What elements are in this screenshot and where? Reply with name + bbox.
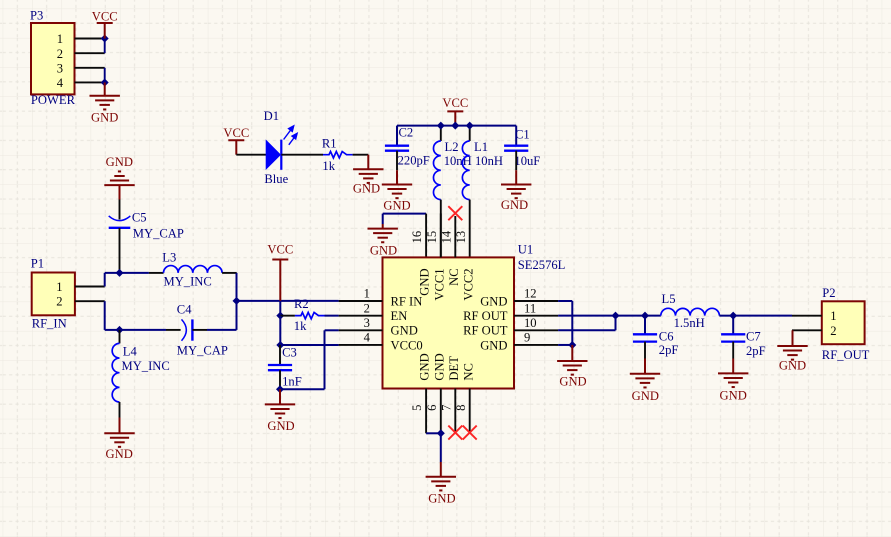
svg-text:1nF: 1nF	[282, 375, 302, 389]
power VCC D1	[223, 126, 249, 155]
svg-text:GND: GND	[370, 244, 397, 258]
svg-text:P3: P3	[30, 9, 43, 23]
svg-text:C1: C1	[515, 128, 530, 142]
svg-text:8: 8	[454, 405, 468, 411]
svg-text:GND: GND	[418, 268, 432, 295]
power VCC bus	[442, 96, 468, 126]
wire L2 to U1 pin15	[440, 200, 442, 258]
svg-text:5: 5	[410, 405, 424, 411]
wire pin6 to GND	[440, 433, 442, 462]
connector P1	[31, 257, 105, 331]
ground GND C3	[265, 389, 295, 433]
junction pin9/pin12	[568, 341, 576, 349]
svg-text:VCC1: VCC1	[432, 268, 446, 300]
svg-text:GND: GND	[632, 389, 659, 403]
junction P3 pin4	[101, 78, 109, 86]
svg-text:6: 6	[425, 405, 439, 411]
svg-text:2pF: 2pF	[746, 344, 766, 358]
svg-text:RF_OUT: RF_OUT	[822, 348, 870, 362]
wire R2 node down	[279, 316, 281, 345]
junction C5/L3	[116, 269, 124, 277]
svg-text:L2: L2	[445, 140, 459, 154]
pin U1 7	[454, 389, 456, 432]
wire C5 to L3 node	[119, 228, 121, 273]
svg-text:3: 3	[57, 61, 63, 75]
wire L5 to C7	[719, 315, 733, 317]
wire to U1 pin4	[280, 344, 338, 346]
wire U1 pin11 to output rail	[558, 315, 615, 317]
svg-text:L3: L3	[162, 250, 176, 264]
ground GND R1	[353, 155, 384, 196]
svg-text:C7: C7	[746, 329, 761, 343]
svg-text:SE2576L: SE2576L	[518, 258, 566, 272]
ground GND C1	[501, 170, 532, 212]
wire R2 to U1 pin2	[325, 315, 339, 317]
power VCC P3	[92, 9, 118, 38]
ground GND L4	[104, 418, 134, 462]
svg-text:GND: GND	[267, 419, 294, 433]
no connect X pin7	[448, 426, 462, 440]
svg-text:MY_CAP: MY_CAP	[177, 343, 228, 357]
pin U1 5	[425, 389, 427, 434]
pin U1 10 RF OUT	[463, 316, 558, 338]
svg-text:GND: GND	[720, 389, 747, 403]
pin L4 to GND	[119, 402, 121, 418]
ground GND C5 (inverted)	[104, 155, 134, 199]
pin C2 to GND	[396, 151, 398, 171]
svg-text:2: 2	[57, 47, 63, 61]
wire U1 pin12 to GND corner	[558, 301, 572, 345]
svg-text:RF OUT: RF OUT	[463, 324, 508, 338]
junction right rail	[233, 297, 241, 305]
junction bus VCC	[451, 122, 459, 130]
svg-text:U1: U1	[518, 243, 533, 257]
svg-text:4: 4	[364, 331, 371, 345]
svg-text:RF IN: RF IN	[391, 294, 423, 308]
wire U1 pin5 to pin6	[426, 432, 441, 434]
pin U1 4 VCC0	[339, 331, 423, 353]
junction rail pin10/11	[612, 312, 620, 320]
pin C4 right	[192, 329, 207, 331]
pin U1 11 RF OUT	[463, 301, 558, 323]
svg-text:POWER: POWER	[31, 93, 76, 107]
svg-text:GND: GND	[383, 198, 410, 212]
svg-text:VCC2: VCC2	[461, 268, 475, 300]
junction C6	[641, 312, 649, 320]
wire node A horizontal	[105, 272, 149, 274]
pin U1 16	[425, 214, 427, 258]
svg-text:1: 1	[364, 287, 370, 301]
junction L4/C4	[116, 326, 124, 334]
capacitor C7	[721, 316, 766, 358]
svg-text:DET: DET	[447, 356, 461, 381]
wire bus to L1	[469, 126, 471, 141]
connector P3	[30, 9, 105, 107]
svg-text:1k: 1k	[322, 159, 335, 173]
IC U1 SE2576L body	[383, 257, 515, 388]
inductor L3	[162, 250, 222, 288]
wire U1 pin3 loop	[280, 330, 339, 389]
junction bus L2	[437, 122, 445, 130]
connector P2	[792, 286, 870, 362]
no connect X pin8	[463, 426, 477, 440]
svg-text:15: 15	[425, 231, 439, 244]
wire R1 to GND corner	[353, 154, 369, 156]
wire P1 pin2 down	[105, 301, 120, 330]
pin C4 left	[166, 329, 181, 331]
wire P3 pin1-pin2	[104, 39, 106, 54]
svg-text:EN: EN	[391, 309, 408, 323]
pin L3 left	[149, 272, 164, 274]
capacitor C6	[633, 316, 679, 357]
wire right rail vertical	[236, 273, 238, 330]
inductor L2	[433, 140, 471, 200]
pin U1 15	[440, 213, 442, 257]
svg-text:12: 12	[524, 287, 537, 301]
pin C3 bottom	[279, 370, 281, 389]
capacitor C4 MY_CAP	[177, 302, 228, 357]
svg-text:10: 10	[524, 316, 537, 330]
svg-text:VCC: VCC	[442, 96, 468, 110]
svg-text:VCC0: VCC0	[391, 338, 423, 352]
pin U1 9 GND	[480, 331, 558, 353]
ground GND P3	[90, 82, 120, 124]
svg-text:1: 1	[57, 32, 63, 46]
wire C4 to right rail	[207, 329, 237, 331]
svg-text:R2: R2	[294, 297, 309, 311]
pin C6 bottom	[644, 342, 646, 359]
svg-text:L5: L5	[662, 292, 676, 306]
junction P3 pin1	[101, 35, 109, 43]
inductor L4	[112, 330, 170, 402]
wire U1 pin9 to GND	[558, 344, 572, 346]
capacitor C3	[268, 345, 302, 389]
svg-text:VCC: VCC	[223, 126, 249, 140]
wire node B to C4	[120, 329, 167, 331]
svg-text:MY_INC: MY_INC	[122, 359, 170, 373]
svg-text:D1: D1	[264, 109, 279, 123]
svg-text:14: 14	[439, 230, 453, 243]
svg-text:220pF: 220pF	[398, 153, 430, 167]
junction pin6 GND	[437, 429, 445, 437]
LED D1	[264, 109, 298, 186]
wire bus to L2	[440, 126, 442, 141]
inductor L1	[462, 140, 503, 200]
ground GND P2	[777, 330, 807, 372]
svg-text:L4: L4	[123, 345, 138, 359]
svg-text:13: 13	[454, 231, 468, 244]
wire bus to C1	[515, 126, 517, 146]
wire C7 to P2 pin1	[733, 315, 792, 317]
svg-text:RF OUT: RF OUT	[463, 309, 508, 323]
no connect X pin14	[448, 206, 462, 220]
svg-text:MY_INC: MY_INC	[164, 274, 212, 288]
svg-text:VCC: VCC	[267, 242, 293, 256]
svg-text:GND: GND	[432, 353, 446, 380]
wire VCC down to R2 node	[279, 301, 281, 316]
pin U1 3 GND	[339, 316, 418, 338]
svg-text:GND: GND	[353, 181, 380, 195]
svg-text:7: 7	[439, 405, 453, 411]
svg-text:C4: C4	[177, 302, 192, 316]
capacitor C2	[385, 126, 430, 168]
pin U1 14	[454, 216, 456, 257]
svg-text:C5: C5	[132, 211, 147, 225]
pin C1 to GND	[515, 151, 517, 171]
svg-text:P1: P1	[31, 257, 44, 271]
wire L1 to U1 pin13	[469, 200, 471, 258]
ground GND pin16	[368, 224, 398, 258]
svg-text:NC: NC	[461, 363, 475, 381]
resistor R2	[280, 297, 324, 333]
wire rail to U1 pin1	[237, 300, 339, 302]
svg-text:10uF: 10uF	[514, 154, 540, 168]
svg-text:L1: L1	[474, 140, 488, 154]
svg-text:1: 1	[56, 280, 62, 294]
capacitor C5 MY_CAP	[109, 200, 184, 241]
svg-text:NC: NC	[447, 268, 461, 286]
svg-text:MY_CAP: MY_CAP	[133, 226, 184, 240]
wire bus to C2	[396, 126, 398, 146]
svg-text:P2: P2	[822, 286, 835, 300]
pin U1 1 RF IN	[339, 287, 423, 309]
svg-text:1.5nH: 1.5nH	[674, 316, 705, 330]
resistor R1	[322, 137, 353, 173]
svg-text:GND: GND	[391, 324, 418, 338]
ground GND U1 bottom	[426, 462, 456, 505]
junction C3 bottom	[276, 385, 284, 393]
wire D1 cathode to R1	[281, 154, 323, 156]
svg-text:Blue: Blue	[264, 172, 288, 186]
svg-text:1: 1	[830, 309, 836, 323]
svg-text:R1: R1	[322, 137, 337, 151]
ground GND pin9/12	[557, 345, 587, 388]
svg-text:10nH: 10nH	[475, 154, 503, 168]
wire U1 pin16 to GND	[383, 214, 426, 224]
svg-text:1k: 1k	[294, 319, 307, 333]
svg-text:2: 2	[830, 324, 836, 338]
wire VCC bus	[397, 125, 516, 127]
ground GND C6	[630, 359, 660, 404]
svg-text:2: 2	[56, 295, 62, 309]
svg-text:GND: GND	[501, 198, 528, 212]
power VCC R2	[267, 242, 293, 301]
svg-text:RF_IN: RF_IN	[32, 317, 67, 331]
svg-text:16: 16	[410, 231, 424, 244]
capacitor C1	[504, 128, 540, 168]
svg-text:GND: GND	[418, 353, 432, 380]
svg-text:2: 2	[364, 301, 370, 315]
svg-text:9: 9	[524, 331, 530, 345]
inductor L5	[661, 292, 720, 330]
wire P1 pin1 up	[104, 273, 106, 287]
junction bus L1	[466, 122, 474, 130]
svg-text:GND: GND	[106, 155, 133, 169]
svg-text:GND: GND	[106, 447, 133, 461]
svg-text:C2: C2	[399, 126, 414, 140]
svg-text:GND: GND	[480, 294, 507, 308]
svg-text:GND: GND	[428, 491, 455, 505]
ground GND C2	[382, 170, 412, 212]
pin U1 8	[469, 389, 471, 432]
svg-text:2pF: 2pF	[659, 343, 679, 357]
svg-text:C3: C3	[282, 346, 297, 360]
wire P3 pin3-pin4	[104, 68, 106, 83]
svg-text:3: 3	[364, 316, 370, 330]
pin U1 12 GND	[480, 287, 558, 309]
pin U1 2 EN	[339, 301, 408, 323]
pin C7 bottom	[732, 342, 734, 359]
svg-text:GND: GND	[480, 338, 507, 352]
wire U1 pin10 to rail	[558, 316, 615, 331]
pin U1 6	[440, 389, 442, 434]
svg-text:GND: GND	[559, 374, 586, 388]
junction R2	[276, 312, 284, 320]
svg-text:11: 11	[524, 301, 536, 315]
junction C3 top	[276, 341, 284, 349]
pin L3 right	[222, 272, 237, 274]
junction C7	[729, 312, 737, 320]
svg-text:VCC: VCC	[92, 9, 118, 23]
svg-text:C6: C6	[659, 330, 674, 344]
ground GND C7	[718, 359, 748, 403]
svg-text:GND: GND	[779, 358, 806, 372]
svg-text:GND: GND	[91, 111, 118, 125]
wire rail to C6	[616, 315, 661, 317]
wire VCC to D1 anode	[236, 154, 266, 156]
svg-text:4: 4	[57, 76, 64, 90]
